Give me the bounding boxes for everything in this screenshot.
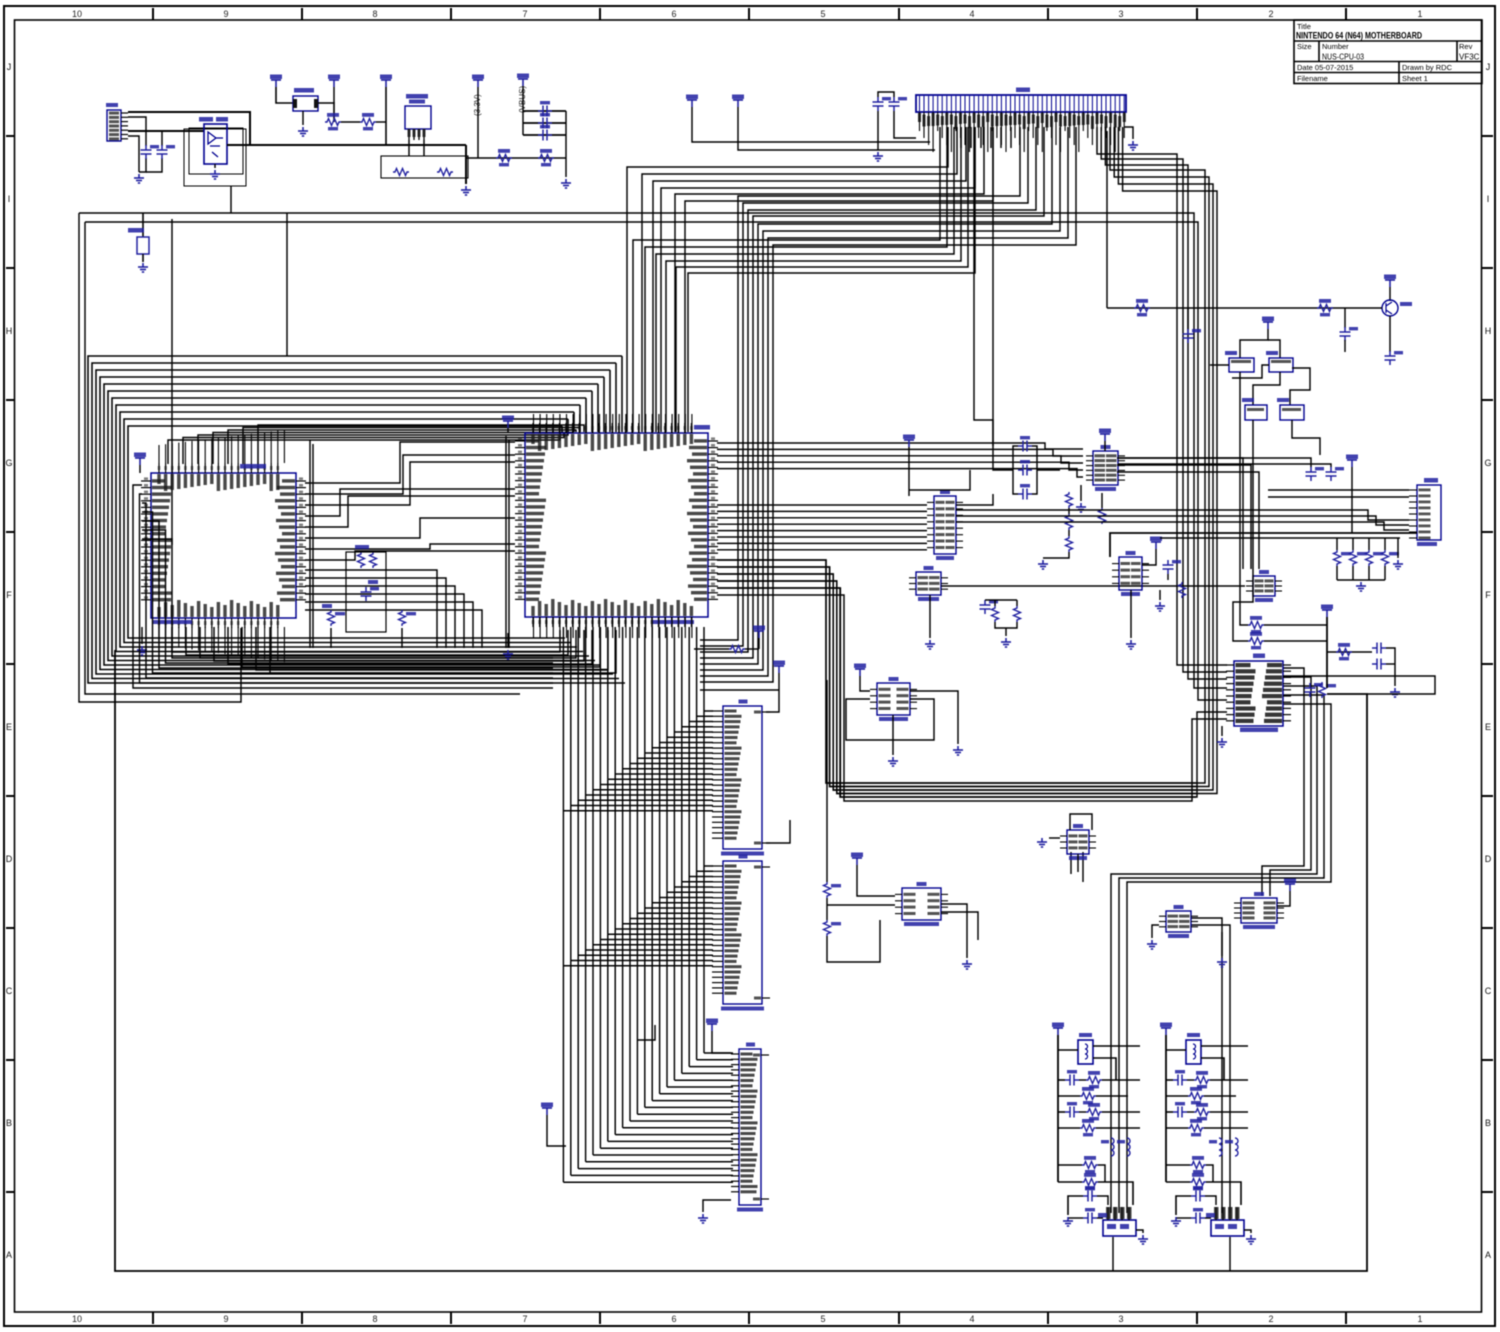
wire: [1082, 852, 1084, 882]
wire: [1205, 1196, 1216, 1205]
wire: [1058, 1079, 1065, 1081]
svg-text:A: A: [1485, 1250, 1491, 1260]
wire bus trunk: [570, 627, 572, 1175]
resistor R29: [992, 606, 999, 622]
wire tap J5: [645, 1106, 733, 1108]
wire: [213, 432, 572, 464]
wire: [305, 602, 473, 648]
svg-text:H: H: [1485, 326, 1492, 336]
wire tap J3: [623, 768, 713, 770]
wire bus loop: [128, 426, 565, 638]
oscillator X1: [405, 106, 431, 129]
wire: [1268, 340, 1280, 358]
wire tap J4: [637, 912, 713, 914]
label (3.3V): [473, 94, 482, 116]
wire: [1093, 1045, 1140, 1047]
wire tap J3: [615, 773, 713, 775]
svg-text:8: 8: [372, 1314, 377, 1324]
wire: [305, 462, 515, 505]
svg-text:Sheet 1: Sheet 1: [1402, 74, 1428, 83]
svg-text:4: 4: [969, 1314, 974, 1324]
wire: [305, 489, 515, 516]
fuse F1: [293, 96, 318, 111]
svg-text:Number: Number: [1322, 42, 1349, 51]
resistor R21: [1248, 622, 1264, 629]
capacitor: [1173, 1107, 1187, 1118]
capacitor C17: [1372, 659, 1386, 670]
resistor: [1080, 1125, 1096, 1132]
wire: [198, 432, 568, 464]
wire: [1352, 566, 1354, 580]
wire bus: [1229, 936, 1231, 1213]
wire tap J3: [674, 731, 713, 733]
wire tap J4: [682, 881, 713, 883]
wire bus: [717, 127, 1217, 794]
wire: [717, 517, 927, 519]
wire tap J5: [593, 1154, 733, 1156]
wire bus: [1270, 677, 1311, 896]
wire bus trunk: [673, 627, 675, 1080]
ground: [1356, 582, 1366, 591]
wire: [826, 898, 828, 920]
wire: [142, 503, 553, 678]
wire stub: [1010, 127, 1012, 148]
svg-text:Date 05-07-2015: Date 05-07-2015: [1297, 63, 1353, 72]
wire bus: [1127, 704, 1331, 1213]
logic gate A3: [1245, 405, 1267, 420]
svg-text:I: I: [8, 194, 11, 204]
svg-text:7: 7: [522, 1314, 527, 1324]
wire: [1336, 538, 1338, 550]
wire: [1068, 1217, 1083, 1219]
wire tap J3: [608, 778, 713, 780]
wire: [956, 516, 1409, 525]
wire bus: [717, 595, 1227, 801]
wire tap J5: [615, 1134, 733, 1136]
svg-text:Drawn by RDC: Drawn by RDC: [1402, 63, 1453, 72]
label (VBUS): [518, 86, 527, 113]
wire: [465, 145, 467, 184]
power flag: [1346, 455, 1358, 460]
wire tap J4: [615, 928, 713, 930]
label: [355, 545, 369, 549]
IC U8: [1253, 576, 1275, 596]
wire: [1187, 1079, 1194, 1081]
wire: [894, 111, 916, 138]
wire bus: [717, 127, 1213, 790]
wire bus trunk: [681, 627, 683, 1073]
svg-text:9: 9: [223, 9, 228, 19]
capacitor C16: [1372, 643, 1386, 654]
resistor R10: [824, 882, 831, 898]
wire: [908, 447, 910, 496]
wire box: [909, 470, 970, 490]
wire tap J4: [630, 918, 713, 920]
wire: [717, 549, 927, 551]
IC U6: [916, 572, 941, 595]
svg-text:C: C: [1485, 986, 1492, 996]
wire tap J5: [674, 1079, 733, 1081]
svg-text:G: G: [1484, 458, 1491, 468]
wire: [1268, 489, 1409, 491]
resistor R26: [1066, 492, 1073, 508]
title block: [1294, 20, 1482, 84]
svg-text:4: 4: [969, 9, 974, 19]
wire: [1277, 891, 1290, 906]
resistor R20: [729, 646, 745, 653]
wire: [956, 522, 1409, 530]
wire: [523, 134, 566, 136]
wire: [1013, 446, 1018, 494]
wire: [228, 430, 576, 464]
wire: [376, 121, 386, 123]
wire bus stub: [609, 370, 611, 432]
wire: [1104, 441, 1106, 451]
svg-text:5: 5: [820, 1314, 825, 1324]
wire: [1229, 1237, 1231, 1271]
ground: [137, 646, 147, 655]
wire: [1159, 590, 1161, 600]
ground: [1126, 640, 1136, 649]
wire: [133, 485, 553, 688]
wire rail: [309, 440, 311, 648]
wire: [507, 428, 509, 433]
wire: [1098, 1165, 1105, 1182]
wire: [1201, 1045, 1248, 1047]
wire bus trunk: [607, 627, 609, 1141]
wire bus trunk: [688, 627, 690, 1067]
wire stub: [980, 127, 982, 148]
wire: [183, 432, 564, 464]
resistor R17: [393, 169, 409, 176]
wire: [1204, 1127, 1248, 1129]
wire tap J3: [660, 742, 713, 744]
svg-text:VF3C: VF3C: [1459, 53, 1480, 62]
wire: [466, 157, 566, 159]
vertical feeds: [974, 127, 993, 446]
IC U9 video connector: [1417, 485, 1441, 540]
wire: [1264, 640, 1327, 642]
resistor R23: [1336, 649, 1352, 656]
wire: [745, 648, 759, 650]
wire bus: [633, 127, 940, 432]
wire: [286, 213, 288, 356]
wire: [547, 1115, 566, 1146]
connector J2 cartridge slot: [916, 95, 1126, 112]
wire: [1327, 651, 1372, 653]
svg-text:8: 8: [372, 9, 377, 19]
wire: [1097, 1196, 1108, 1205]
resistor: [1188, 1093, 1204, 1100]
svg-text:B: B: [6, 1118, 12, 1128]
capacitor C19: [1163, 560, 1174, 574]
wire bus loop: [120, 412, 577, 647]
wire tap J4: [660, 897, 713, 899]
wire tap J3: [571, 805, 713, 807]
wire bus: [645, 127, 947, 432]
power flag: [1321, 605, 1333, 610]
resistor: [1082, 1162, 1098, 1169]
wire: [128, 130, 204, 132]
inductor L filter: [1186, 1040, 1201, 1064]
wire tap J5: [660, 1093, 733, 1095]
wire stub: [960, 127, 962, 148]
wire bus: [661, 127, 975, 432]
wire tap J5: [697, 1059, 733, 1061]
wire: [1176, 1196, 1191, 1215]
wire bus stub: [561, 426, 563, 432]
wire: [712, 1031, 731, 1053]
resistor R22: [1248, 638, 1264, 645]
capacitor C9: [1018, 465, 1032, 476]
wire: [139, 158, 146, 172]
component box: [381, 156, 468, 178]
wire: [1176, 1217, 1191, 1219]
capacitor C7: [889, 97, 900, 111]
ground: [925, 640, 935, 649]
svg-text:5: 5: [820, 9, 825, 19]
wire: [703, 1200, 731, 1212]
wire: [200, 627, 576, 658]
svg-text:E: E: [6, 722, 12, 732]
wire: [1233, 420, 1253, 641]
wire: [1160, 537, 1400, 539]
wire: [1068, 1196, 1083, 1215]
ground: [561, 179, 571, 188]
capacitor: [1191, 1213, 1205, 1224]
svg-text:3: 3: [1118, 1314, 1123, 1324]
resistor R7: [328, 610, 335, 626]
wire: [1384, 566, 1386, 580]
svg-text:9: 9: [223, 1314, 228, 1324]
ground: [1171, 1217, 1181, 1226]
wire: [128, 136, 139, 172]
svg-text:1: 1: [1417, 9, 1422, 19]
label U1: [694, 425, 710, 430]
resistor R14: [1350, 550, 1357, 566]
svg-text:J: J: [1486, 62, 1491, 72]
capacitor C8: [1018, 441, 1032, 452]
ground: [1076, 503, 1086, 512]
wire: [1117, 465, 1251, 569]
svg-text:F: F: [6, 590, 12, 600]
wire: [1167, 574, 1169, 580]
wire tap J3: [600, 784, 713, 786]
IC U7: [1119, 557, 1142, 590]
wire: [893, 699, 934, 740]
wire: [142, 521, 553, 668]
wire tap J5: [563, 1181, 733, 1183]
wire: [941, 912, 978, 940]
IC U12: [902, 888, 941, 920]
bead FB: [1127, 1138, 1130, 1156]
ground: [698, 1214, 708, 1223]
logic gate A1: [1229, 358, 1254, 372]
wire bus: [700, 127, 1036, 652]
wire: [1097, 1217, 1103, 1219]
wire: [1292, 420, 1320, 455]
wire: [1166, 1111, 1173, 1113]
wire: [228, 627, 592, 664]
wire rail: [508, 440, 510, 648]
wire: [305, 570, 437, 648]
svg-text:I: I: [1487, 194, 1490, 204]
capacitor C14: [1306, 467, 1317, 481]
wire: [717, 581, 1196, 794]
wire: [956, 494, 993, 505]
wire bus loop: [92, 363, 619, 679]
ground: [461, 186, 471, 195]
wire bus: [656, 127, 954, 432]
resistor: [1080, 1093, 1096, 1100]
power flag: [686, 95, 698, 100]
resistor: [1194, 1109, 1210, 1116]
wire bus: [653, 127, 966, 432]
wire bus stub: [591, 391, 593, 432]
wire bus: [642, 127, 957, 432]
svg-text:1: 1: [1417, 1314, 1422, 1324]
connector audio out: [1103, 1220, 1136, 1236]
wire rail: [505, 436, 507, 648]
wire tap J3: [563, 810, 713, 812]
resistor: [1194, 1077, 1210, 1084]
ground: [1217, 738, 1227, 747]
resistor R13: [1334, 550, 1341, 566]
wire: [717, 462, 1083, 470]
wire: [1191, 918, 1222, 936]
wire tap J4: [578, 954, 713, 956]
svg-text:C: C: [6, 986, 13, 996]
wire: [523, 110, 566, 112]
wire: [270, 627, 616, 673]
wire: [717, 567, 1196, 787]
wire tap J4: [600, 939, 713, 941]
wire bus loop: [104, 384, 601, 665]
wire: [1130, 590, 1132, 638]
wire tap J4: [586, 949, 713, 951]
wire: [1070, 814, 1092, 830]
svg-text:2: 2: [1268, 1314, 1273, 1324]
wire: [1368, 566, 1370, 580]
wire tap J3: [652, 747, 713, 749]
wire tap J3: [682, 726, 713, 728]
wire tap J5: [630, 1120, 733, 1122]
wire: [1068, 508, 1070, 514]
wire bus: [1262, 668, 1304, 896]
power flag: [1262, 317, 1274, 322]
wire bus trunk: [592, 627, 594, 1155]
wire: [1107, 307, 1382, 309]
svg-text:J: J: [7, 62, 12, 72]
wire: [1058, 1164, 1082, 1166]
wire: [1210, 364, 1229, 366]
wire bus stub: [579, 405, 581, 432]
wire: [168, 432, 560, 464]
resistor: [1188, 1125, 1204, 1132]
wire: [1166, 1181, 1190, 1183]
wire bus trunk: [666, 627, 668, 1087]
wire bus loop: [100, 377, 607, 670]
wire: [827, 904, 895, 906]
wire bus: [700, 127, 1052, 664]
ground: [1037, 838, 1047, 847]
wire tap J5: [682, 1072, 733, 1074]
wire: [1290, 368, 1310, 405]
wire: [717, 443, 1083, 449]
bead FB: [1111, 1138, 1114, 1156]
wire: [1344, 308, 1346, 328]
wire bus loop: [116, 405, 583, 652]
wire: [1058, 1095, 1080, 1097]
IC U14: [1241, 898, 1277, 923]
wire: [827, 920, 880, 962]
wire: [477, 87, 479, 158]
CPU chip U1: [525, 433, 708, 617]
wire: [305, 551, 515, 560]
ground: [134, 174, 144, 183]
wire tap J5: [623, 1127, 733, 1129]
wire: [1152, 925, 1159, 938]
resistor R3: [496, 155, 512, 162]
wire: [1037, 469, 1060, 471]
wire: [146, 158, 162, 172]
RDRAM chip U3: [151, 473, 296, 618]
wire: [1166, 1127, 1188, 1129]
power flag: [1052, 1023, 1064, 1028]
wire: [1077, 854, 1079, 872]
wire bus stub: [597, 384, 599, 432]
wire: [305, 586, 455, 648]
wire: [717, 456, 1083, 463]
wire tap J4: [593, 944, 713, 946]
resistor R15: [1366, 550, 1373, 566]
wire tap J3: [630, 763, 713, 765]
wire: [956, 510, 1409, 520]
wire: [128, 117, 146, 146]
wire: [333, 87, 335, 103]
wire bus: [700, 127, 1028, 646]
wire: [1096, 1127, 1140, 1129]
wire rail: [1057, 1035, 1059, 1182]
wire tap J3: [697, 715, 713, 717]
resistor R12: [1317, 305, 1333, 312]
wire: [1326, 617, 1328, 688]
wire tap J5: [637, 1113, 733, 1115]
svg-text:E: E: [1485, 722, 1491, 732]
resistor: [1190, 1162, 1206, 1169]
svg-text:Rev: Rev: [1459, 42, 1473, 51]
wire bus trunk: [562, 627, 564, 1182]
svg-text:D: D: [6, 854, 13, 864]
wire bus: [700, 127, 1044, 658]
capacitor C12b: [1183, 329, 1194, 343]
wire bus trunk: [651, 627, 653, 1101]
bead FB: [1235, 1138, 1238, 1156]
wire: [717, 574, 1196, 790]
wire main 3.3V rail: [227, 144, 466, 146]
wire: [1166, 1079, 1173, 1081]
resistor R6: [370, 552, 377, 568]
capacitor C9c: [1018, 489, 1032, 500]
wire: [1201, 1058, 1224, 1080]
wire: [717, 560, 1196, 783]
wire: [523, 122, 566, 124]
wire: [1389, 316, 1391, 352]
power flag: [903, 435, 915, 440]
power flag: [1160, 1023, 1172, 1028]
wire rail: [312, 444, 314, 648]
wire bus loop: [96, 370, 613, 674]
